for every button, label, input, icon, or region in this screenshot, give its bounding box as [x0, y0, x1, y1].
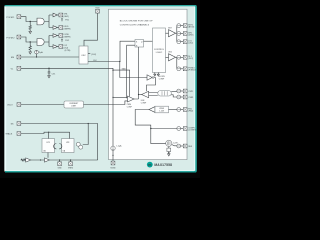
wire COMP to reference [151, 129, 166, 144]
compensation network wires [135, 110, 151, 129]
pin CSN row [171, 95, 177, 97]
wire SS drop 1 [83, 124, 88, 145]
current limit box [64, 101, 84, 108]
svg-text:1.2µA: 1.2µA [116, 145, 122, 148]
wire block1 bottom [47, 153, 49, 158]
gate G1B driver [53, 26, 57, 30]
resistor R1 pulldown [29, 22, 31, 32]
ground arrows under control logic [155, 73, 159, 75]
pin DL1 row [177, 55, 181, 59]
svg-text:(COMP2): (COMP2) [188, 129, 196, 131]
flip-flop U2 [135, 40, 144, 48]
pin FB row [169, 109, 177, 111]
svg-text:COMP: COMP [159, 78, 165, 80]
wire to block2 top [69, 132, 71, 139]
svg-text:(GH2): (GH2) [64, 16, 70, 18]
current source I2 [111, 146, 115, 150]
wire OSC CLK to flip-flop [88, 41, 135, 61]
ground arrow 1 [29, 31, 32, 33]
node N1 junction [30, 21, 31, 22]
Maxim logo [147, 162, 153, 168]
svg-text:(GMPH): (GMPH) [64, 28, 71, 30]
oscillator OSC [79, 46, 88, 64]
card white bottom glow [6, 170, 194, 172]
wire to block1 top [48, 132, 50, 139]
wire G1A to pin [57, 14, 59, 16]
wire gate G2 output split [45, 36, 53, 47]
reference V1 1.24V [166, 140, 172, 146]
wire limit box to comparator [84, 101, 128, 105]
net CLK label [88, 53, 90, 55]
teal-bordered pale card [4, 5, 196, 172]
svg-text:(LX2): (LX2) [188, 43, 193, 45]
pin VDD [96, 9, 100, 13]
svg-text:BLOCK SHOWN FOR ONE OF: BLOCK SHOWN FOR ONE OF [120, 21, 153, 23]
svg-text:LIMIT: LIMIT [71, 105, 77, 107]
svg-text:(CLK): (CLK) [91, 54, 96, 56]
pin TRACK [17, 132, 21, 136]
svg-text:(DL2): (DL2) [188, 58, 193, 60]
pin PWM2 [17, 35, 21, 39]
control logic block U3 [153, 28, 166, 73]
node PG2 stub [61, 39, 63, 42]
svg-text:(FB2): (FB2) [188, 110, 193, 112]
buffer U10 [45, 158, 50, 162]
svg-text:LOGIC: LOGIC [156, 52, 163, 54]
card teal right edge [195, 6, 197, 172]
wire SS row [21, 123, 98, 125]
pin GL3 [59, 45, 63, 49]
svg-text:CSN1: CSN1 [188, 97, 193, 99]
pin DH1 [59, 13, 63, 17]
pin PWM1 [17, 15, 21, 19]
block LPF1 [42, 139, 55, 153]
wire G2A to pin [57, 35, 59, 37]
svg-text:m: m [148, 163, 151, 167]
svg-text:(6.7W): (6.7W) [65, 50, 71, 52]
node N2 junction [30, 41, 31, 42]
slope comp gate U11 [147, 75, 152, 80]
buffer U9 [26, 158, 31, 162]
black background frame [0, 0, 200, 178]
wire TRACK row [21, 132, 70, 133]
svg-text:GND: GND [58, 168, 63, 170]
svg-text:EN: EN [11, 57, 14, 59]
wire VL branch to comparator [113, 70, 130, 96]
svg-text:CSP1: CSP1 [188, 91, 193, 93]
pin LX1 row [177, 40, 181, 44]
gate G2B driver [53, 45, 57, 49]
buffer row wire [25, 159, 98, 161]
PWM comparator U6 [128, 96, 135, 102]
wire I2 to SGND pin [112, 151, 114, 162]
svg-text:COMP: COMP [141, 102, 147, 104]
svg-text:VDD: VDD [95, 7, 100, 9]
wire PWM comp output [134, 47, 139, 99]
current source I1 [35, 50, 39, 54]
svg-text:(GMPH): (GMPH) [64, 36, 71, 38]
wire G2B to pin [57, 46, 59, 48]
svg-text:MAX17558: MAX17558 [154, 163, 172, 167]
svg-text:PG1: PG1 [65, 20, 69, 22]
pin VREG bottom [70, 160, 72, 162]
pin CSP row [171, 91, 177, 93]
svg-text:(BST2): (BST2) [188, 27, 194, 29]
resistor R2 pulldown [29, 42, 31, 52]
wire EN row to OSC [21, 56, 79, 58]
svg-text:(PGND2): (PGND2) [188, 70, 196, 72]
error amp U8 [149, 107, 155, 113]
wire VDD to OSC [84, 13, 98, 46]
wire SS drop 3 [97, 124, 99, 161]
pin EN [17, 55, 21, 59]
level shift capsule [149, 93, 158, 96]
pin PGND row [177, 67, 181, 71]
svg-text:CVL: CVL [52, 73, 56, 75]
pin SS [17, 122, 21, 126]
node PG1 stub [61, 18, 63, 21]
svg-text:PWM2: PWM2 [6, 37, 15, 39]
wire gate G1 output split [45, 15, 53, 28]
capacitor CVL [48, 68, 49, 69]
gate G2 [37, 39, 44, 46]
svg-text:UVLO: UVLO [7, 105, 13, 107]
wire driver1 bus [176, 26, 177, 42]
gate G1 [37, 18, 44, 25]
wire VL rail [21, 68, 113, 146]
wire pin PWM2 to gate G2 [21, 37, 37, 42]
wire UVLO to limit box [21, 104, 64, 106]
svg-text:VREG: VREG [68, 168, 74, 170]
svg-text:SGND: SGND [110, 168, 116, 170]
wire pin PWM1 to gate G1 [21, 17, 37, 22]
wire PWM comp to flip-flop R [127, 45, 135, 98]
svg-text:OSC: OSC [81, 55, 86, 57]
pin GL1 [59, 26, 63, 30]
gate G2A driver [53, 34, 57, 38]
svg-text:PWM1: PWM1 [6, 17, 15, 19]
pin UVLO [17, 103, 21, 107]
svg-text:TRACK: TRACK [5, 133, 12, 136]
pin SGND [111, 161, 115, 165]
wire driver2 bus [176, 57, 177, 69]
pin GND bottom [59, 160, 61, 162]
block LPF2 [62, 139, 75, 153]
svg-text:CONTROL: CONTROL [154, 49, 165, 51]
wire flip-flop to control logic [144, 40, 153, 42]
svg-text:PG2: PG2 [65, 40, 69, 42]
ground arrow ref [168, 154, 171, 156]
pin DH1 row [177, 32, 181, 36]
card white right glow [194, 7, 196, 170]
ground arrow 2 [29, 52, 32, 54]
svg-text:COMP: COMP [127, 106, 133, 108]
crossover arcs [54, 144, 62, 149]
svg-text:CONTROLLER CHANNELS: CONTROLLER CHANNELS [120, 23, 150, 26]
svg-text:1.24V: 1.24V [159, 111, 164, 113]
pin GH3 [59, 34, 63, 38]
wire G1B to pin [57, 27, 59, 29]
wire ref to REF pin [172, 145, 177, 146]
svg-text:(DH2): (DH2) [188, 34, 193, 36]
card teal bottom edge [5, 171, 196, 173]
resistor R3 ref chain [168, 147, 170, 148]
resistor R4 [21, 159, 26, 161]
card teal top edge [5, 5, 197, 7]
IC outline panel [109, 9, 188, 159]
current mirror Q1 [76, 142, 80, 146]
pin VL [17, 66, 21, 70]
gate G1A driver [53, 13, 57, 17]
pin COMP row [151, 128, 177, 130]
pin BST1 row [177, 24, 181, 28]
wire CLK to slope comp [120, 62, 147, 78]
current sense amp U7 [142, 91, 149, 97]
card white left glow [4, 7, 6, 171]
